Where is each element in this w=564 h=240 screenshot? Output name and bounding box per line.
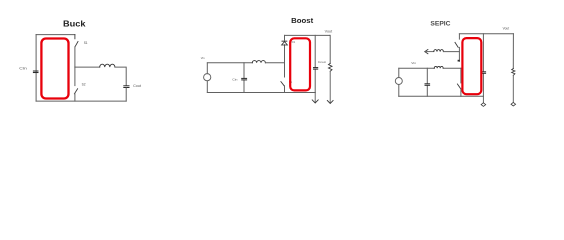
wire source top stub	[206, 63, 208, 74]
capacitor Cout branch	[482, 34, 484, 97]
wire inductor to switch node	[265, 62, 284, 64]
diode D1	[282, 42, 288, 45]
wire buck loop top edge	[36, 34, 75, 36]
capacitor Cin branch wires	[243, 63, 245, 93]
wire source bottom stub	[398, 85, 400, 97]
wire L1 to coupling cap	[443, 67, 461, 69]
capacitor Cin plates	[241, 78, 247, 79]
svg-text:Buck: Buck	[63, 20, 86, 29]
wire upper output rail	[285, 34, 330, 36]
wire arrow to L2	[425, 51, 434, 53]
switch S1	[458, 34, 460, 39]
ground diamond under Cout	[482, 96, 484, 103]
wire node up to diode	[284, 45, 286, 63]
wire input rail	[399, 67, 434, 69]
load resistor branch	[512, 34, 514, 69]
coupling capacitor plate tick	[458, 60, 460, 62]
capacitor Cin plates	[425, 83, 431, 84]
ground arrow under load	[327, 101, 333, 104]
svg-text:Boost: Boost	[291, 16, 314, 25]
wire mid rail to inductor	[75, 66, 100, 68]
capacitor Cout plates	[481, 71, 486, 72]
wire switch node vertical	[284, 63, 286, 77]
capacitor Cout plates	[313, 67, 318, 68]
capacitor Cin plates	[33, 71, 39, 72]
svg-text:SEPIC: SEPIC	[430, 21, 450, 28]
wire inductor to output corner	[115, 67, 126, 85]
switch S1	[74, 35, 76, 39]
svg-text:Cin: Cin	[19, 66, 27, 70]
wire bottom rail	[399, 95, 484, 97]
capacitor Cout branch	[314, 35, 316, 92]
switch S1 lower branch	[460, 68, 462, 83]
wire diode to upper rail	[284, 35, 286, 40]
hot loop highlight sepic	[462, 38, 481, 94]
wire buck bottom rail	[36, 100, 126, 102]
resistor zigzag	[329, 63, 333, 71]
switch S1 blade	[281, 82, 284, 86]
svg-text:Cin: Cin	[232, 77, 238, 81]
source V1 circle	[395, 78, 402, 85]
wire buck loop left edge	[35, 35, 37, 102]
wire top rail	[459, 33, 513, 35]
svg-text:Vout: Vout	[503, 27, 510, 31]
svg-text:Vin: Vin	[201, 56, 205, 60]
svg-text:Vout: Vout	[325, 29, 333, 33]
hot loop highlight buck	[41, 39, 68, 99]
svg-text:S1: S1	[84, 41, 88, 45]
inductor L2	[434, 50, 444, 52]
inductor L1	[434, 66, 443, 68]
inductor L	[100, 64, 115, 67]
capacitor Cout plates	[123, 85, 129, 86]
ground arrow under Cout	[314, 93, 316, 103]
resistor zigzag	[512, 69, 515, 76]
arrow left on L2 winding	[425, 50, 428, 54]
svg-text:D1: D1	[292, 40, 296, 44]
source V1 circle	[204, 74, 211, 81]
svg-text:Vin: Vin	[411, 61, 416, 65]
wire bottom rail	[207, 92, 315, 94]
wire top rail	[207, 62, 252, 64]
hot loop highlight boost	[290, 38, 310, 90]
ground diamond under load	[511, 102, 516, 106]
svg-text:S2: S2	[82, 83, 86, 87]
wire source top stub	[398, 68, 400, 77]
svg-text:Cout: Cout	[318, 60, 326, 64]
wire source bottom stub	[206, 81, 208, 93]
svg-text:Cout: Cout	[133, 84, 141, 88]
inductor L boost	[252, 61, 265, 63]
wire L2 to switch node	[443, 51, 459, 53]
load resistor branch	[329, 35, 331, 63]
switch S2	[74, 67, 76, 86]
wire Cout to bottom rail	[125, 88, 127, 101]
capacitor Cin branch	[426, 68, 428, 96]
